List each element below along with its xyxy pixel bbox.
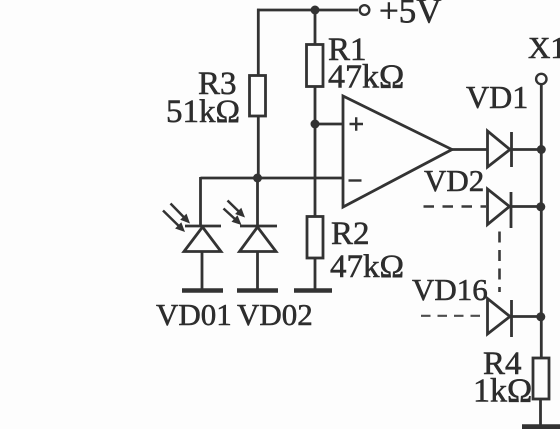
diode VD2 <box>488 189 512 228</box>
wire dashed VD16 input <box>421 315 486 317</box>
wire R3 top drop <box>257 9 260 76</box>
node plus input junction <box>311 120 320 129</box>
svg-text:51kΩ: 51kΩ <box>166 94 240 130</box>
wire R4 bottom <box>539 399 542 425</box>
wire VD2 cathode to bus <box>512 205 540 208</box>
wire VD01 bottom <box>201 251 204 289</box>
wire VD1 cathode to bus <box>512 148 541 151</box>
wire VD01 top drop <box>199 177 202 226</box>
wire dashed VD2 input <box>424 205 487 208</box>
wire R3 bottom to minus node <box>257 115 260 179</box>
light arrows VD01 <box>163 204 190 233</box>
wire R2 bottom <box>314 258 317 289</box>
node minus rail junction <box>253 174 262 183</box>
svg-text:VD16: VD16 <box>412 272 488 307</box>
photodiode VD01 <box>184 226 221 252</box>
resistor R3 <box>250 76 266 117</box>
svg-text:R2: R2 <box>331 216 370 252</box>
svg-text:47kΩ: 47kΩ <box>328 59 404 96</box>
wire top rail +5V <box>257 9 358 12</box>
resistor R2 <box>307 217 323 259</box>
node top rail junction <box>311 6 320 15</box>
node bus VD16 <box>536 312 545 321</box>
wire VD02 bottom <box>256 251 259 289</box>
svg-text:VD01: VD01 <box>156 297 232 332</box>
wire dashed vertical VD2 to VD16 <box>498 232 501 293</box>
wire R1 bottom to R2 top <box>314 86 317 217</box>
terminal +5V circle <box>360 5 370 15</box>
svg-text:47kΩ: 47kΩ <box>330 249 404 285</box>
wire R1 top drop <box>314 10 317 45</box>
wire VD16 cathode to bus <box>512 315 540 318</box>
ground VD02 <box>237 288 278 293</box>
svg-text:VD2: VD2 <box>424 163 484 198</box>
diode VD16 <box>488 299 512 338</box>
node bus VD1 <box>537 145 546 154</box>
resistor R4 <box>533 358 549 399</box>
wire minus rail <box>201 177 344 180</box>
terminal X1 circle <box>536 74 546 84</box>
svg-text:VD02: VD02 <box>237 297 313 332</box>
light arrows VD02 <box>224 201 246 226</box>
wire op-amp output <box>452 148 487 151</box>
ground R2 <box>294 288 332 293</box>
svg-text:+5V: +5V <box>379 0 442 31</box>
svg-text:X1: X1 <box>528 30 560 65</box>
ground VD01 <box>182 288 223 293</box>
wire VD02 top drop <box>256 178 259 226</box>
photodiode VD02 <box>240 226 278 252</box>
wire plus input <box>315 123 343 126</box>
wire right bus <box>540 84 543 358</box>
op-amp U1 <box>343 96 452 207</box>
resistor R1 <box>307 45 324 87</box>
diode VD1 <box>488 131 512 167</box>
svg-text:1kΩ: 1kΩ <box>473 373 532 410</box>
ground R4 <box>522 424 560 429</box>
svg-text:VD1: VD1 <box>466 79 528 115</box>
node bus VD2 <box>536 202 545 211</box>
